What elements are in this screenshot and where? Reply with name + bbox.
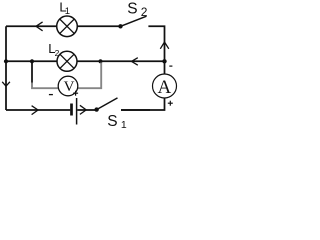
- svg-text:2: 2: [55, 48, 60, 58]
- voltmeter branch wire left (black drop): [31, 61, 33, 83]
- current arrow (left) on top wire: [36, 22, 43, 31]
- switch S2 pivot: [118, 24, 122, 28]
- label S2: [127, 0, 148, 19]
- current arrow (right) after battery: [80, 105, 86, 114]
- junction node voltmeter-left: [30, 59, 34, 63]
- junction node left: [4, 59, 8, 63]
- lamp L2: [57, 51, 77, 71]
- middle wire left segment: [6, 60, 57, 62]
- switch S2 contact + top-right corner + right vertical wire: [148, 26, 164, 74]
- switch S1 lever: [97, 98, 118, 110]
- label L1: [59, 0, 70, 17]
- voltmeter minus mark: [49, 94, 53, 96]
- svg-text:2: 2: [141, 5, 148, 19]
- wire ammeter bottom + bottom-right corner: [121, 98, 165, 110]
- svg-text:S: S: [107, 113, 117, 129]
- ammeter A1: [153, 74, 177, 98]
- junction node voltmeter-right: [98, 59, 102, 63]
- svg-text:V: V: [64, 79, 75, 95]
- wire top-middle segment: [77, 25, 120, 27]
- current arrow (right) on bottom-left wire: [32, 106, 38, 115]
- battery cell: short plate (negative): [70, 104, 73, 116]
- voltmeter plus mark: [73, 91, 78, 96]
- svg-text:A: A: [158, 77, 172, 98]
- current arrow (left) on middle wire: [132, 58, 138, 65]
- bottom wire left segment: [6, 109, 70, 111]
- voltmeter V1: [58, 76, 78, 96]
- lamp L1: [57, 16, 78, 37]
- switch S1 pivot: [94, 107, 98, 111]
- svg-text:1: 1: [65, 6, 70, 17]
- ammeter minus mark: [169, 65, 172, 67]
- current arrow (up) on right wire: [160, 42, 169, 49]
- voltmeter branch wire left (grey): [32, 83, 59, 89]
- switch S1 contact: [121, 109, 150, 111]
- svg-text:S: S: [127, 0, 137, 17]
- ammeter plus mark: [168, 101, 173, 106]
- left vertical wire: [5, 26, 7, 110]
- battery cell: long plate (positive): [76, 98, 78, 125]
- svg-text:1: 1: [121, 119, 127, 129]
- voltmeter branch wire right (grey): [78, 63, 102, 89]
- wire top-left segment: [6, 25, 57, 27]
- label L2: [48, 41, 59, 58]
- bottom wire battery-to-S1 segment: [77, 109, 96, 111]
- middle wire right segment: [77, 60, 165, 62]
- label S1: [107, 113, 127, 131]
- switch S2 lever: [121, 16, 147, 26]
- junction node right: [162, 59, 166, 63]
- current arrow (down) on left wire: [2, 82, 10, 86]
